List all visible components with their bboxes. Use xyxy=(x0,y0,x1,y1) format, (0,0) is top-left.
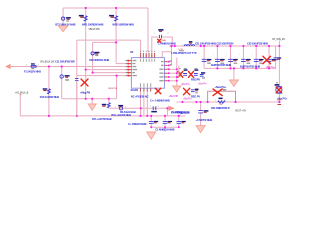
wire right pin row4 xyxy=(168,72,177,74)
svg-text:+Bia NHB: +Bia NHB xyxy=(169,95,179,98)
svg-text:LOW ATND/T CUT TYP: LOW ATND/T CUT TYP xyxy=(171,51,197,55)
wire fb cap branch xyxy=(200,102,202,126)
capacitor C22 xyxy=(213,53,225,63)
svg-text:WR1 100R/2W NHB: WR1 100R/2W NHB xyxy=(82,23,104,27)
X over C26 xyxy=(263,56,271,64)
svg-text:C1 1060/2/4 NHB: C1 1060/2/4 NHB xyxy=(171,110,189,114)
wire bead L2 vertical xyxy=(61,67,63,99)
X'd cap right of IC a xyxy=(178,72,183,78)
wire cap branch 6 xyxy=(268,46,270,68)
capacitor C41 xyxy=(149,121,158,123)
sense out arrow xyxy=(168,106,174,111)
wire 3cap gnd stem xyxy=(164,127,166,131)
wire ic bottom pins drop a xyxy=(140,92,142,116)
input port arrow xyxy=(5,64,10,69)
svg-text:+Meg PN: +Meg PN xyxy=(80,90,90,94)
wire right pin row6 xyxy=(168,80,177,82)
IC left pins xyxy=(128,61,131,76)
wire R2 branch vertical xyxy=(115,8,117,64)
wire cap ground rail xyxy=(204,67,276,69)
wire pin row2 from R2 xyxy=(116,63,131,65)
wire rail gnd stem xyxy=(233,68,235,80)
wire pin row5 xyxy=(93,72,132,74)
wire right pin row2 xyxy=(168,64,172,66)
capacitor C43 xyxy=(177,121,186,123)
IC top pins xyxy=(141,53,155,58)
wire R1 branch vertical xyxy=(85,8,87,99)
wire top bus corner drop xyxy=(147,8,149,53)
wire sense vertical xyxy=(278,41,280,103)
svg-text:R13 2A2/2W NHB: R13 2A2/2W NHB xyxy=(40,95,59,99)
svg-text:VBULK PW: VBULK PW xyxy=(89,29,101,31)
wire cap branch 2 xyxy=(216,46,218,68)
diode D1 with X xyxy=(276,87,282,93)
svg-text:C11 100UF/50 WR: C11 100UF/50 WR xyxy=(55,59,75,63)
svg-text:+Bia PV+: +Bia PV+ xyxy=(181,83,191,86)
IC U1 body xyxy=(131,58,164,89)
capacitor C25 xyxy=(251,53,263,63)
wire 3cap branch c xyxy=(178,116,180,121)
wire 3cap branch a xyxy=(150,116,152,121)
svg-text:0R15 PW: 0R15 PW xyxy=(108,88,118,90)
svg-text:C1 NHB/C/H NHB: C1 NHB/C/H NHB xyxy=(155,128,174,132)
battery PS1 circle xyxy=(62,17,65,20)
wire 3cap rail stubs xyxy=(151,124,179,128)
wire cap branch 5 xyxy=(255,46,257,68)
svg-text:BH/T00UF/25 NHB: BH/T00UF/25 NHB xyxy=(211,63,231,67)
resistor R1 xyxy=(84,16,87,21)
ground arrow left xyxy=(88,104,96,110)
wire r13 branch xyxy=(48,67,50,116)
svg-text:REG PV: REG PV xyxy=(191,95,200,99)
capacitor C21 xyxy=(199,53,211,63)
svg-text:VO_SNS_0%: VO_SNS_0% xyxy=(272,39,285,41)
series capacitor C15 xyxy=(153,106,156,110)
wire sense row xyxy=(109,107,169,109)
svg-text:R21 NNN/NTW R: R21 NNN/NTW R xyxy=(211,106,230,110)
3cap ground arrow xyxy=(147,132,156,139)
capacitor C26 DNP xyxy=(267,59,277,62)
svg-text:+VS_BULK_B: +VS_BULK_B xyxy=(15,92,29,94)
wire pgnd vertical xyxy=(176,58,178,87)
svg-text:+Bia PV+: +Bia PV+ xyxy=(198,82,208,85)
svg-text:F1 2A/32V NHB: F1 2A/32V NHB xyxy=(24,70,41,74)
svg-text:FB2 600R/3A NHB: FB2 600R/3A NHB xyxy=(89,58,109,62)
wire 3cap rail xyxy=(151,126,179,128)
X'd cap below c xyxy=(183,88,189,95)
wire pin row4 xyxy=(86,69,132,71)
wire cap branch 3 xyxy=(230,46,232,68)
svg-text:BH/T00UF/25 NHB: BH/T00UF/25 NHB xyxy=(240,65,260,69)
capacitor C23 xyxy=(226,53,238,63)
fb cap ground arrow xyxy=(196,126,205,133)
fb cap C31 xyxy=(198,111,203,113)
wire fb bus xyxy=(177,101,280,103)
wire cap branch 7 xyxy=(275,46,277,68)
resistor R21 0R xyxy=(218,101,225,103)
wire top bus xyxy=(63,7,148,9)
fuse F1 xyxy=(31,66,36,68)
wire input net xyxy=(10,66,131,68)
wire ic bottom pins drop b xyxy=(143,92,145,116)
output capacitors row xyxy=(199,53,281,63)
pgnd arrow xyxy=(173,86,181,92)
ferrite bead FB2 xyxy=(91,52,94,55)
wire vs bulk stub xyxy=(19,95,21,116)
wire bootstrap loop xyxy=(152,37,172,53)
wire ic bottom pins drop c xyxy=(146,92,148,116)
wire lx merge vertical xyxy=(171,46,173,65)
ferrite bead FB3 xyxy=(119,107,122,110)
resistor R16 xyxy=(107,103,110,108)
wire VIN left vertical xyxy=(76,40,78,116)
wire jumper loop xyxy=(208,91,236,102)
svg-text:U1: U1 xyxy=(130,50,134,54)
power arrow down battery xyxy=(58,26,67,32)
wire cap branch 4 xyxy=(242,46,244,68)
svg-text:R0 A/G/A NHB: R0 A/G/A NHB xyxy=(120,110,136,114)
wire bottom ground bus xyxy=(20,115,185,117)
wire fb riser xyxy=(116,76,118,99)
svg-text:VIN_BULK 1W: VIN_BULK 1W xyxy=(40,61,55,63)
svg-text:+Bia PV+: +Bia PV+ xyxy=(183,98,193,101)
X small bootstrap xyxy=(158,39,161,42)
ground arrow out rail xyxy=(229,80,238,87)
IC right pins xyxy=(165,62,168,81)
wire main out bus xyxy=(169,45,279,47)
svg-text:WR2 100R/2W NHB: WR2 100R/2W NHB xyxy=(112,23,134,27)
svg-text:C21 100UF/25 NHB C22 100UF/25: C21 100UF/25 NHB C22 100UF/25N xyxy=(195,41,233,45)
svg-text:C+ 1060/2/4 NHB: C+ 1060/2/4 NHB xyxy=(128,122,147,126)
svg-text:VOUT = 5V: VOUT = 5V xyxy=(235,110,246,112)
svg-text:C+NHB/A2 NHB: C+NHB/A2 NHB xyxy=(158,42,176,46)
wire sense taps xyxy=(140,108,142,116)
svg-text:+C NF/T/2 NHB: +C NF/T/2 NHB xyxy=(196,118,213,122)
wire right pin row1 xyxy=(168,61,172,63)
svg-text:R15 +A/OT/2 NHB: R15 +A/OT/2 NHB xyxy=(92,117,112,121)
X over C12 xyxy=(81,79,88,86)
X over IC bottom pin xyxy=(155,88,161,94)
wire R2 to bead link xyxy=(93,41,117,43)
capacitor C86 xyxy=(191,90,195,92)
svg-text:C++ 1490/6/2 NHB: C++ 1490/6/2 NHB xyxy=(150,99,170,103)
capacitor C85 xyxy=(194,74,198,76)
wire tap2 xyxy=(166,108,168,116)
svg-text:NC +PG/E/B NC: NC +PG/E/B NC xyxy=(131,95,149,99)
capacitor C42 xyxy=(163,121,172,123)
wire bead FB2 vertical xyxy=(92,42,94,72)
capacitor C84 xyxy=(183,74,187,76)
svg-text:SC/AN: SC/AN xyxy=(131,88,139,92)
inductor L1 xyxy=(184,45,194,46)
capacitor C87 xyxy=(200,75,204,77)
svg-text:C25 100UF/25 NHB: C25 100UF/25 NHB xyxy=(247,41,268,45)
capacitor C24 xyxy=(239,53,251,63)
IC pin names left xyxy=(126,51,181,88)
wire battery drop xyxy=(62,8,64,26)
resistor R13 xyxy=(47,89,50,94)
wire gnd left horizontal xyxy=(62,98,117,100)
wire right pin row3 xyxy=(168,68,177,70)
wire gnd arrow stem left xyxy=(91,99,93,105)
ferrite bead L2 xyxy=(60,75,63,78)
svg-text:REG/PV: REG/PV xyxy=(191,77,200,81)
svg-text:+New PG+: +New PG+ xyxy=(215,85,227,89)
wire cap branch 1 xyxy=(203,46,205,68)
wire 3cap branch b xyxy=(164,116,166,121)
bootstrap capacitor C14 xyxy=(159,35,161,39)
wire VIN pin drop xyxy=(140,40,142,53)
wire pgnd second vertical xyxy=(178,65,180,77)
jumper X xyxy=(213,89,222,96)
IC bottom pins xyxy=(141,88,151,91)
wire pin row6 xyxy=(77,75,132,77)
resistor R2 xyxy=(115,16,118,21)
wire lx link small xyxy=(162,52,171,58)
X'd cap right of IC b xyxy=(189,72,194,78)
wire R16 riser xyxy=(108,99,110,103)
wire VIN horizontal to IC xyxy=(77,39,141,41)
capacitor C27 small xyxy=(274,57,282,59)
capacitor C12 with X xyxy=(75,78,79,80)
svg-text:+Bia PG+: +Bia PG+ xyxy=(266,66,276,69)
IC left pin end markers xyxy=(127,60,129,77)
wire right pin row5 xyxy=(168,76,177,78)
